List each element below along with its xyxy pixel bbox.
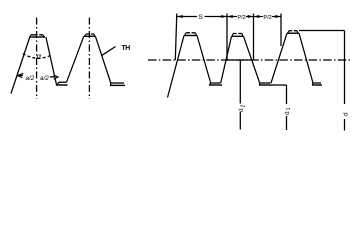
svg-text:P/2: P/2	[237, 15, 245, 21]
svg-text:a/2: a/2	[40, 75, 49, 82]
svg-text:d: d	[284, 111, 291, 115]
svg-text:S: S	[198, 14, 203, 21]
svg-text:a/2: a/2	[26, 75, 35, 82]
svg-text:P/2: P/2	[263, 15, 271, 21]
svg-text:α: α	[37, 52, 42, 61]
svg-text:1: 1	[286, 107, 292, 110]
svg-text:d: d	[343, 112, 350, 116]
svg-text:ТН: ТН	[122, 45, 131, 52]
svg-text:d: d	[238, 108, 245, 112]
svg-text:2: 2	[240, 104, 246, 107]
